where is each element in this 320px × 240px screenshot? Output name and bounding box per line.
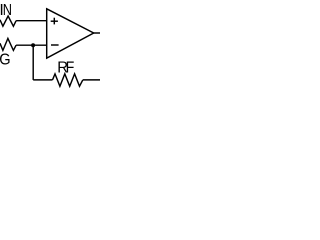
- svg-text:N: N: [3, 2, 12, 20]
- svg-text:G: G: [0, 51, 11, 69]
- wire output: [94, 32, 100, 34]
- op-amp feedback amplifier schematic: [0, 0, 100, 89]
- op-amp minus sign: [51, 44, 59, 46]
- resistor R-G: [0, 38, 16, 50]
- op-amp plus sign: [51, 20, 58, 22]
- wire G to op-amp - input: [16, 44, 47, 46]
- svg-text:F: F: [66, 59, 75, 77]
- wire IN to op-amp + input: [16, 20, 47, 22]
- wire RF left lead: [33, 79, 52, 81]
- op-amp U1 triangle: [47, 9, 94, 58]
- junction dot: [31, 43, 35, 47]
- wire RF right lead to edge: [83, 79, 100, 81]
- resistor RF: [53, 74, 83, 86]
- wire feedback vertical: [32, 45, 34, 80]
- resistor R-IN: [0, 16, 16, 26]
